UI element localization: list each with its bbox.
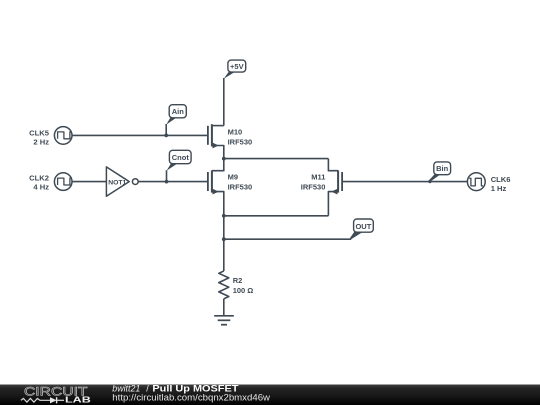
node OUT flag (350, 219, 373, 240)
svg-text:http://circuitlab.com/cbqnx2bm: http://circuitlab.com/cbqnx2bmxd46w (112, 393, 270, 403)
svg-text:OUT: OUT (355, 222, 371, 231)
wire top rail to M11 drain (224, 158, 329, 160)
node Cnot flag (167, 150, 192, 181)
wire CLK5 output to M10 gate (72, 134, 208, 136)
wire OUT node to OUT flag (224, 238, 351, 240)
footer title text (112, 383, 270, 402)
junction dot Cnot on NOT1 output wire (165, 180, 169, 184)
wire NOT1 output to M9 gate (138, 181, 208, 183)
svg-text:4 Hz: 4 Hz (33, 182, 49, 191)
svg-text:Cnot: Cnot (172, 153, 190, 162)
footer bar (0, 385, 540, 405)
transistor M10 IRF530 (NMOS) (208, 124, 252, 158)
transistor M11 IRF530 (NMOS, mirrored) (301, 159, 342, 216)
node Ain flag (166, 105, 186, 136)
resistor R2 100 Ohm (219, 271, 254, 299)
transistor M9 IRF530 (NMOS) (208, 159, 252, 216)
clock source CLK5 (2 Hz) (29, 127, 72, 147)
svg-text:IRF530: IRF530 (301, 182, 326, 191)
svg-text:IRF530: IRF530 (228, 182, 253, 191)
junction dot node A (M10 source / M9 drain / top rail) (222, 157, 226, 161)
inverter NOT1 (106, 167, 138, 196)
clock source CLK6 (1 Hz) (467, 173, 510, 193)
svg-text:+5V: +5V (230, 62, 244, 71)
CircuitLab logo (21, 385, 91, 404)
svg-text:CLK5: CLK5 (29, 129, 50, 138)
wire CLK2 output to NOT1 input (72, 181, 106, 183)
junction dot OUT node (222, 237, 226, 241)
junction dot mid rail (M9 source / M11 source / output stem) (222, 214, 226, 218)
clock source CLK2 (4 Hz) (29, 173, 72, 192)
junction dot Ain on CLK5 wire (164, 134, 168, 138)
svg-text:NOT1: NOT1 (108, 179, 126, 186)
power flag +5V (224, 60, 246, 126)
svg-text:Bin: Bin (436, 164, 449, 173)
svg-text:R2: R2 (233, 276, 243, 285)
svg-text:CLK6: CLK6 (491, 175, 511, 184)
svg-text:1 Hz: 1 Hz (491, 184, 507, 193)
svg-text:IRF530: IRF530 (228, 137, 253, 146)
svg-text:M10: M10 (228, 128, 243, 137)
wire mid rail junction down to OUT junction (223, 216, 225, 239)
wire OUT node down to R2 (223, 239, 225, 271)
svg-text:Ain: Ain (172, 107, 185, 116)
wire R2 to ground (223, 299, 225, 316)
svg-text:LAB: LAB (65, 395, 91, 404)
wire mid rail to M11 source (224, 215, 329, 217)
node Bin flag (429, 162, 451, 182)
wire M11 gate to CLK6 (342, 181, 467, 183)
svg-text:M11: M11 (311, 173, 325, 182)
junction dot Bin on M11 gate wire (428, 180, 431, 183)
svg-text:100 Ω: 100 Ω (233, 286, 254, 295)
svg-text:2 Hz: 2 Hz (33, 137, 49, 146)
svg-text:M9: M9 (228, 173, 238, 182)
ground (214, 316, 234, 325)
svg-text:CLK2: CLK2 (29, 174, 49, 183)
